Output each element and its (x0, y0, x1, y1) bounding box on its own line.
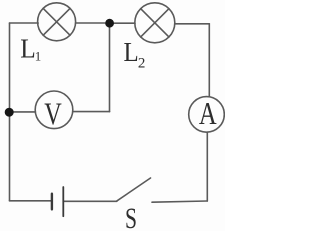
switch S blade (117, 178, 151, 201)
svg-text:S: S (125, 203, 137, 231)
node J2 junction dot (5, 108, 14, 117)
lamp L1 (38, 3, 76, 41)
svg-text:L: L (124, 37, 139, 67)
wire L1 to node J1 (76, 22, 105, 24)
battery B1 short plate (51, 194, 53, 210)
lamp L2 (135, 3, 175, 43)
wire left vertical (9, 23, 11, 201)
wire riser up to node J1 (109, 25, 111, 112)
wire ammeter to bottom-right corner (206, 132, 208, 201)
svg-text:V: V (44, 96, 62, 132)
svg-text:1: 1 (35, 48, 42, 63)
wire battery to switch pivot (63, 200, 117, 202)
svg-text:L: L (20, 34, 36, 64)
wire voltmeter to riser (73, 111, 110, 113)
voltmeter V (35, 91, 73, 129)
wire right vertical down to ammeter (208, 24, 210, 97)
ammeter A (189, 97, 225, 133)
wire bottom-right: corner to switch contact (152, 201, 207, 202)
node J1 junction dot (105, 19, 114, 28)
wire node J1 to lamp L2 (114, 22, 135, 24)
wire L2 to top-right corner (175, 23, 210, 25)
svg-text:2: 2 (138, 55, 146, 71)
wire top-left: left corner to lamp L1 (10, 22, 39, 24)
svg-text:A: A (199, 95, 217, 131)
wire voltmeter branch: node J2 to voltmeter (9, 111, 35, 113)
wire bottom-left: corner to battery (10, 200, 52, 202)
battery B1 long plate (62, 187, 64, 216)
